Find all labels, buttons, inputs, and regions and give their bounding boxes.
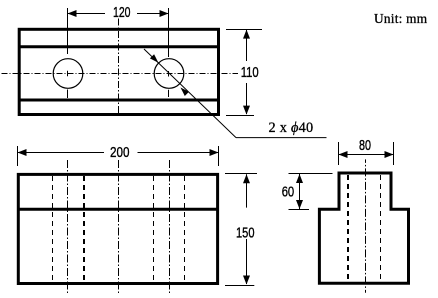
top view outline [18,29,219,114]
front view hidden line hole left-left [52,176,54,282]
horizontal center line of top view [2,73,239,75]
side view center line [365,159,367,292]
front view center line left hole [67,160,69,295]
svg-text:120: 120 [113,5,131,21]
side view hidden line left [347,175,349,282]
svg-text:60: 60 [282,185,295,201]
dimension 200 line [18,152,219,154]
vertical center line left hole [67,8,69,98]
dimension 60 arrow up [296,174,303,183]
dimension 110 extension top [226,29,262,31]
dimension 150 extension bottom [225,285,254,287]
dimension 80 arrow left [339,151,348,158]
dimension 200 arrow left [18,149,27,156]
front view center line middle [118,160,120,295]
dimension 150 line [246,174,248,284]
side view hidden line right [380,175,382,282]
dimension 200 arrow right [210,149,219,156]
dimension 60 extension top [289,173,333,175]
front view hidden line hole right-left [153,176,155,282]
side view outline [318,173,410,283]
front view hidden line hole left-right [83,176,85,282]
hole circle right [154,59,184,89]
dimension 60 extension bottom [289,209,310,211]
dimension 150 arrow up [243,174,250,183]
svg-text:80: 80 [359,138,371,154]
dimension 80 arrow right [385,151,394,158]
dimension 80 extension left [338,142,340,165]
dimension 110 arrow up [243,30,250,39]
front view center line right hole [169,160,171,295]
vertical center line top view middle [118,19,120,114]
dimension 200 extension left [17,146,19,166]
svg-text:2 x ϕ40: 2 x ϕ40 [269,120,314,136]
dimension 110 line [246,30,248,114]
svg-text:150: 150 [236,225,255,241]
front view outline [17,174,219,283]
dimension 60 line [299,174,301,209]
leader arrow lower [181,88,190,97]
front view hidden line hole right-right [184,176,186,282]
dimension 60 arrow down [296,200,303,209]
dimension 120 arrow left [68,10,77,17]
svg-text:Unit: mm: Unit: mm [374,11,428,26]
dimension 150 arrow down [243,276,250,285]
svg-text:200: 200 [110,145,130,161]
svg-text:110: 110 [241,65,259,81]
dimension 110 extension bottom [226,115,254,117]
leader arrow upper [150,54,159,63]
dimension 150 extension top [225,173,257,175]
vertical center line right hole [168,8,170,97]
leader line to holes [144,49,327,138]
hole circle left [53,59,83,89]
dimension 120 line [68,13,169,15]
dimension 80 line [339,154,394,156]
dimension 120 arrow right [160,10,169,17]
dimension 110 arrow down [243,106,250,115]
dimension 80 extension right [393,142,395,165]
dimension 200 extension right [218,146,220,166]
